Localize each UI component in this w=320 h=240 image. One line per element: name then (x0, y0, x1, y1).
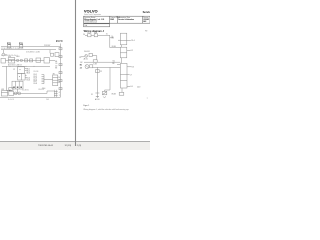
junction cube a (51, 53, 54, 56)
table cell week value (110, 18, 114, 21)
off-page stub A (59, 48, 62, 50)
junction box C10 (36, 58, 41, 62)
label under bus b (46, 99, 49, 101)
ECU U3 internal line b (120, 79, 127, 81)
wire U3 right a (127, 66, 131, 68)
label F22 (7, 43, 12, 45)
sensor B14 pin 2 (25, 70, 27, 72)
header right label (143, 10, 152, 14)
diode V1 (25, 59, 28, 62)
label X9 rows (58, 77, 60, 84)
wire bus 15-rail (1, 49, 56, 51)
label branch a (100, 71, 102, 73)
label E1 (91, 94, 93, 96)
fuse F31 (20, 45, 23, 48)
off-page stub C (59, 64, 62, 66)
label X5 pin 4 (59, 92, 60, 94)
wire bottom link (96, 96, 98, 98)
label under relay row (8, 63, 22, 66)
wire U3 right b (127, 85, 130, 87)
wire to drop (98, 34, 110, 36)
lamp H11 (20, 59, 22, 61)
wire mid row (2, 65, 50, 67)
ground E1 stem (96, 93, 98, 96)
connector X9 row1 (53, 77, 58, 79)
fuse F2 (94, 34, 97, 37)
wire pin stub 5 (42, 81, 45, 83)
table cell info value (118, 18, 134, 21)
tick t2 (17, 66, 19, 67)
wire U1 to U2 (121, 45, 123, 47)
table cell function title (84, 16, 95, 19)
fuse F22 (8, 45, 11, 48)
wire jog branch b (105, 90, 110, 91)
table cell doc no (143, 17, 149, 19)
footnote paragraph (83, 108, 128, 111)
table cell doc value2 (143, 20, 146, 23)
label 30 (83, 34, 85, 36)
label U1 right (131, 40, 135, 42)
label under bus (93, 64, 96, 66)
label wire code bottom (22, 90, 29, 92)
label above pin list (34, 71, 39, 73)
X5 rung 2 (54, 92, 58, 94)
sensor E2 squiggle (103, 96, 106, 97)
table cell doc value (143, 19, 149, 21)
label F2 (94, 33, 96, 35)
ECU U1 box (120, 33, 126, 45)
table cell loaded (84, 20, 97, 23)
label above K20 (8, 56, 11, 58)
label pin column b (27, 77, 31, 81)
off-page stub D (59, 72, 62, 74)
resistor R1 (119, 92, 124, 95)
lamp H20 (14, 92, 17, 95)
wire stub into U2 (110, 47, 121, 49)
footer page left (65, 145, 72, 147)
wire U2 right (127, 49, 131, 51)
tick t3 (25, 66, 27, 67)
sensor E2 hatch (103, 92, 107, 95)
wire bottom row (13, 92, 38, 94)
connector on branch a (96, 70, 100, 73)
wire stub upper (110, 37, 114, 39)
label left of R1 (112, 93, 116, 95)
label pump row (84, 51, 90, 53)
label cluster left (79, 57, 81, 59)
label above lamps (16, 56, 19, 58)
label bus end (113, 61, 116, 63)
wire drop vertical (109, 35, 111, 47)
tick t4 (33, 66, 35, 67)
cycle box text (84, 25, 87, 27)
wire bus mid (84, 61, 120, 63)
label U3 mid (130, 74, 132, 76)
label wire row2 (26, 52, 41, 54)
off-page stub B (59, 56, 62, 58)
sensor box B15 divider (20, 73, 22, 80)
svg-text:12 (19): 12 (19) (65, 145, 72, 147)
wire vertical branch b (109, 67, 111, 90)
wire cluster out (92, 56, 96, 60)
X5 rung 1 (54, 90, 58, 92)
lamp H10 (16, 59, 18, 61)
label cluster right top (44, 45, 50, 47)
ECU U3 box (120, 63, 127, 88)
sensor B15 dot (19, 76, 20, 77)
switch S30 (1, 58, 5, 63)
label 15 (106, 34, 108, 36)
wire branch into U1 (118, 39, 120, 41)
wire stub from X60 (2, 50, 4, 54)
sensor B15 pin 2 (25, 77, 27, 79)
label motor row b (80, 67, 82, 70)
control unit A30 internal v1 (15, 81, 17, 89)
X5 rung 3 (54, 94, 58, 96)
sensor B14 dot (20, 69, 21, 70)
label bottom pair (95, 98, 99, 101)
wire drop from C4 (50, 59, 55, 61)
label F31 (19, 43, 24, 45)
motor M2 bar (86, 65, 89, 68)
label stub U3 (112, 63, 114, 65)
pump M1 circle (85, 55, 88, 58)
sensor B14 pins (25, 67, 27, 69)
wire drop x50 (49, 50, 51, 54)
sensor box B15 (18, 73, 26, 80)
pin list D5 (34, 74, 38, 85)
bracket box M2 (90, 65, 93, 68)
wire fuse link (91, 34, 94, 36)
lamp H21 (18, 92, 21, 95)
connector X60 (2, 53, 5, 56)
ECU U3 internal line a (120, 74, 127, 76)
svg-text:J30081: J30081 (143, 19, 149, 21)
label top corner (145, 31, 147, 33)
table cell current week (110, 16, 120, 19)
connector X9 row2 (53, 79, 58, 81)
label U3 right a (132, 67, 134, 69)
sensor box E2 (102, 91, 106, 94)
label U3 right b2 (137, 86, 140, 88)
header table outer (84, 16, 150, 23)
svg-text:Wiring diagram J: Wiring diagram J (84, 30, 105, 33)
wire cluster link (81, 56, 85, 58)
stub down A30 (16, 89, 18, 93)
junction cube b (55, 53, 59, 57)
footer text left (38, 145, 54, 147)
connector X5 pin b (56, 90, 58, 98)
relay K20 (8, 58, 15, 63)
ECU U1 internal line (120, 40, 127, 42)
relay K20 internal (8, 58, 15, 60)
wire U3 down (121, 88, 123, 92)
wire relay row (6, 59, 44, 61)
label H20 (9, 90, 11, 92)
off-page rail (60, 44, 62, 98)
label F1 (88, 33, 90, 35)
wire left loop (7, 66, 12, 90)
connector X5 pin a (54, 90, 56, 98)
label stub upper (111, 36, 114, 40)
cycle box (84, 24, 110, 27)
footer rule (0, 141, 150, 143)
wire pin stub 4 (42, 79, 45, 81)
wire pin join (43, 75, 45, 84)
valve box Y1 (89, 53, 92, 56)
svg-text:2 (9): 2 (9) (77, 145, 82, 147)
wire pin stub 2 (42, 75, 45, 77)
pump M1 cross a (85, 55, 87, 57)
relay K31 (1, 91, 7, 96)
label X60 (5, 55, 7, 57)
label U2 right (131, 50, 133, 52)
header table divider col2 (117, 16, 119, 23)
wire pin stub 1 (42, 74, 45, 76)
wire top feed (85, 34, 88, 36)
footer band (0, 142, 150, 150)
label under cluster (84, 58, 88, 61)
connector X9 row3 (53, 82, 58, 84)
header table divider col1 (109, 16, 111, 23)
wire U1 right (127, 39, 131, 41)
relay K31 internal (1, 92, 7, 94)
ground lamp E1 (95, 92, 99, 94)
relay K32 (9, 91, 14, 95)
wire U3 mid stub (127, 74, 129, 76)
table cell info type (118, 16, 130, 19)
off-page stub E (59, 80, 62, 82)
connector on bus (93, 60, 97, 63)
label X9 (53, 73, 55, 75)
label pin column a (27, 69, 30, 75)
page divider (75, 0, 77, 146)
wire stub into U3 (117, 64, 120, 66)
label X5 pin 1 (59, 95, 60, 97)
control unit A30 internal v2 (18, 81, 20, 89)
A30 terminal marks (13, 87, 22, 88)
label motor row a (80, 64, 82, 66)
wire vertical branch a (96, 67, 98, 93)
svg-text:VOLVO: VOLVO (84, 9, 98, 14)
ECU U2 internal line (120, 52, 126, 54)
label stub mid (112, 46, 116, 48)
figure caption (83, 104, 89, 107)
tick t1 (9, 66, 11, 67)
fuse F1 (88, 34, 91, 37)
label wire gauge row (1, 48, 23, 50)
svg-text:T3011761 04-01: T3011761 04-01 (38, 145, 54, 147)
label under pins (42, 88, 45, 90)
wire U2 to U3 (121, 58, 123, 64)
label bus left (80, 62, 82, 64)
label column right (55, 61, 57, 69)
wire pin stub 3 (42, 77, 45, 79)
connector C4 (44, 58, 49, 63)
ECU U2 box (120, 47, 126, 58)
wire motor out (93, 66, 121, 68)
wire bottom bus (0, 96, 61, 98)
label sheet code 24 (56, 40, 63, 43)
relay K33 (9, 88, 13, 91)
label B14 (13, 69, 15, 71)
wire bus 30-rail (1, 46, 61, 48)
wire jog to X5 (38, 91, 54, 93)
label K31 (1, 89, 4, 91)
label under bus a (8, 99, 14, 101)
motor M2 circle (85, 65, 89, 69)
sensor B15 pin 1 (25, 75, 27, 77)
off-page stub F (59, 88, 62, 90)
table cell doc title (84, 18, 104, 21)
connector X9 (53, 75, 58, 86)
label pin row (1, 55, 18, 57)
footer page right (77, 145, 82, 147)
label U3 right b (131, 86, 133, 88)
diode V2 (30, 59, 33, 62)
ground E1 hatch (96, 95, 99, 97)
label diagram page (147, 98, 148, 100)
wire pin stub 6 (42, 83, 45, 85)
sensor B14 (18, 67, 25, 74)
label bottom mid (39, 89, 44, 91)
control unit A30 (12, 81, 23, 89)
logo subtext (84, 13, 101, 16)
header table divider col3 (142, 16, 144, 23)
